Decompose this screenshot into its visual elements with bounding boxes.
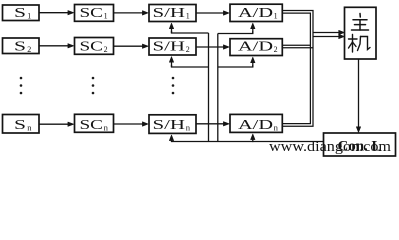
sensor S2 bbox=[3, 38, 40, 54]
control branch A/Dn bbox=[251, 134, 255, 142]
svg-text:n: n bbox=[27, 123, 32, 133]
bus arrow upper into host bbox=[313, 30, 345, 34]
svg-text:SC: SC bbox=[80, 5, 104, 20]
signal conditioner SC2 bbox=[75, 38, 114, 55]
svg-text:SC: SC bbox=[80, 38, 104, 53]
svg-text:S: S bbox=[14, 5, 26, 20]
data bus outer line bbox=[282, 11, 313, 127]
svg-text:S: S bbox=[14, 117, 26, 132]
svg-text:n: n bbox=[104, 123, 109, 133]
svg-text:2: 2 bbox=[186, 45, 190, 54]
bus arrow lower into host bbox=[313, 34, 345, 38]
control branch S/H2 bbox=[169, 57, 208, 67]
signal conditioner SC1 bbox=[75, 5, 114, 22]
wire SCn to S/Hn bbox=[114, 122, 149, 126]
control branch S/Hn bbox=[169, 135, 173, 142]
svg-text:SC: SC bbox=[80, 117, 104, 132]
svg-text:2: 2 bbox=[274, 45, 278, 54]
data bus inner line bbox=[282, 13, 310, 124]
svg-text:A/D: A/D bbox=[238, 38, 273, 53]
sample-hold S/Hn bbox=[149, 115, 196, 134]
svg-text:A/D: A/D bbox=[238, 5, 273, 20]
svg-text:n: n bbox=[274, 123, 279, 133]
ellipsis dots column SC bbox=[92, 77, 95, 95]
host char zhu bbox=[352, 14, 369, 31]
svg-text:2: 2 bbox=[104, 45, 108, 54]
ADC A/D1 bbox=[230, 4, 282, 21]
svg-text:www.diangon.com: www.diangon.com bbox=[269, 139, 392, 155]
ellipsis dots column S bbox=[20, 77, 23, 95]
controller box Con. L bbox=[324, 133, 396, 156]
wire SC1 to S/H1 bbox=[114, 11, 149, 15]
data bus A/D2 tap upper bbox=[282, 44, 310, 46]
sample-hold S/H1 bbox=[149, 5, 196, 22]
wire Sn to SCn bbox=[39, 122, 74, 126]
wire S/Hn to A/Dn bbox=[196, 122, 229, 126]
ellipsis dots column S/H bbox=[172, 77, 175, 95]
sensor Sn bbox=[3, 115, 40, 134]
control bus A/D vertical bbox=[217, 34, 219, 142]
svg-text:1: 1 bbox=[27, 12, 31, 21]
sample-hold S/H2 bbox=[149, 38, 196, 55]
control bottom line from controller bbox=[172, 141, 324, 143]
wire host to controller bbox=[356, 59, 360, 132]
control branch S/H1 bbox=[169, 23, 208, 33]
svg-text:S: S bbox=[14, 38, 26, 53]
wire S1 to SC1 bbox=[39, 11, 74, 15]
svg-text:2: 2 bbox=[27, 45, 31, 54]
wire SC2 to S/H2 bbox=[114, 44, 149, 48]
host box (zhu ji) bbox=[345, 7, 377, 59]
svg-text:S/H: S/H bbox=[153, 5, 186, 20]
signal conditioner SCn bbox=[75, 114, 114, 132]
data bus A/D2 tap lower bbox=[282, 47, 313, 49]
wire S2 to SC2 bbox=[39, 44, 74, 48]
svg-text:1: 1 bbox=[104, 12, 108, 21]
ADC A/D2 bbox=[230, 38, 282, 55]
svg-text:n: n bbox=[186, 123, 191, 133]
wire S/H2 to A/D2 bbox=[196, 45, 229, 49]
control branch A/D2 bbox=[218, 57, 255, 67]
wire S/H1 to A/D1 bbox=[196, 11, 229, 15]
svg-text:A/D: A/D bbox=[238, 117, 273, 132]
svg-text:1: 1 bbox=[274, 12, 278, 21]
control branch A/D1 bbox=[218, 23, 255, 33]
host char ji bbox=[349, 35, 371, 53]
sensor S1 bbox=[3, 5, 40, 21]
svg-text:S/H: S/H bbox=[153, 38, 186, 53]
ADC A/Dn bbox=[230, 114, 282, 132]
svg-text:S/H: S/H bbox=[153, 117, 186, 132]
svg-text:1: 1 bbox=[186, 12, 190, 21]
control bus S/H vertical bbox=[208, 33, 210, 142]
